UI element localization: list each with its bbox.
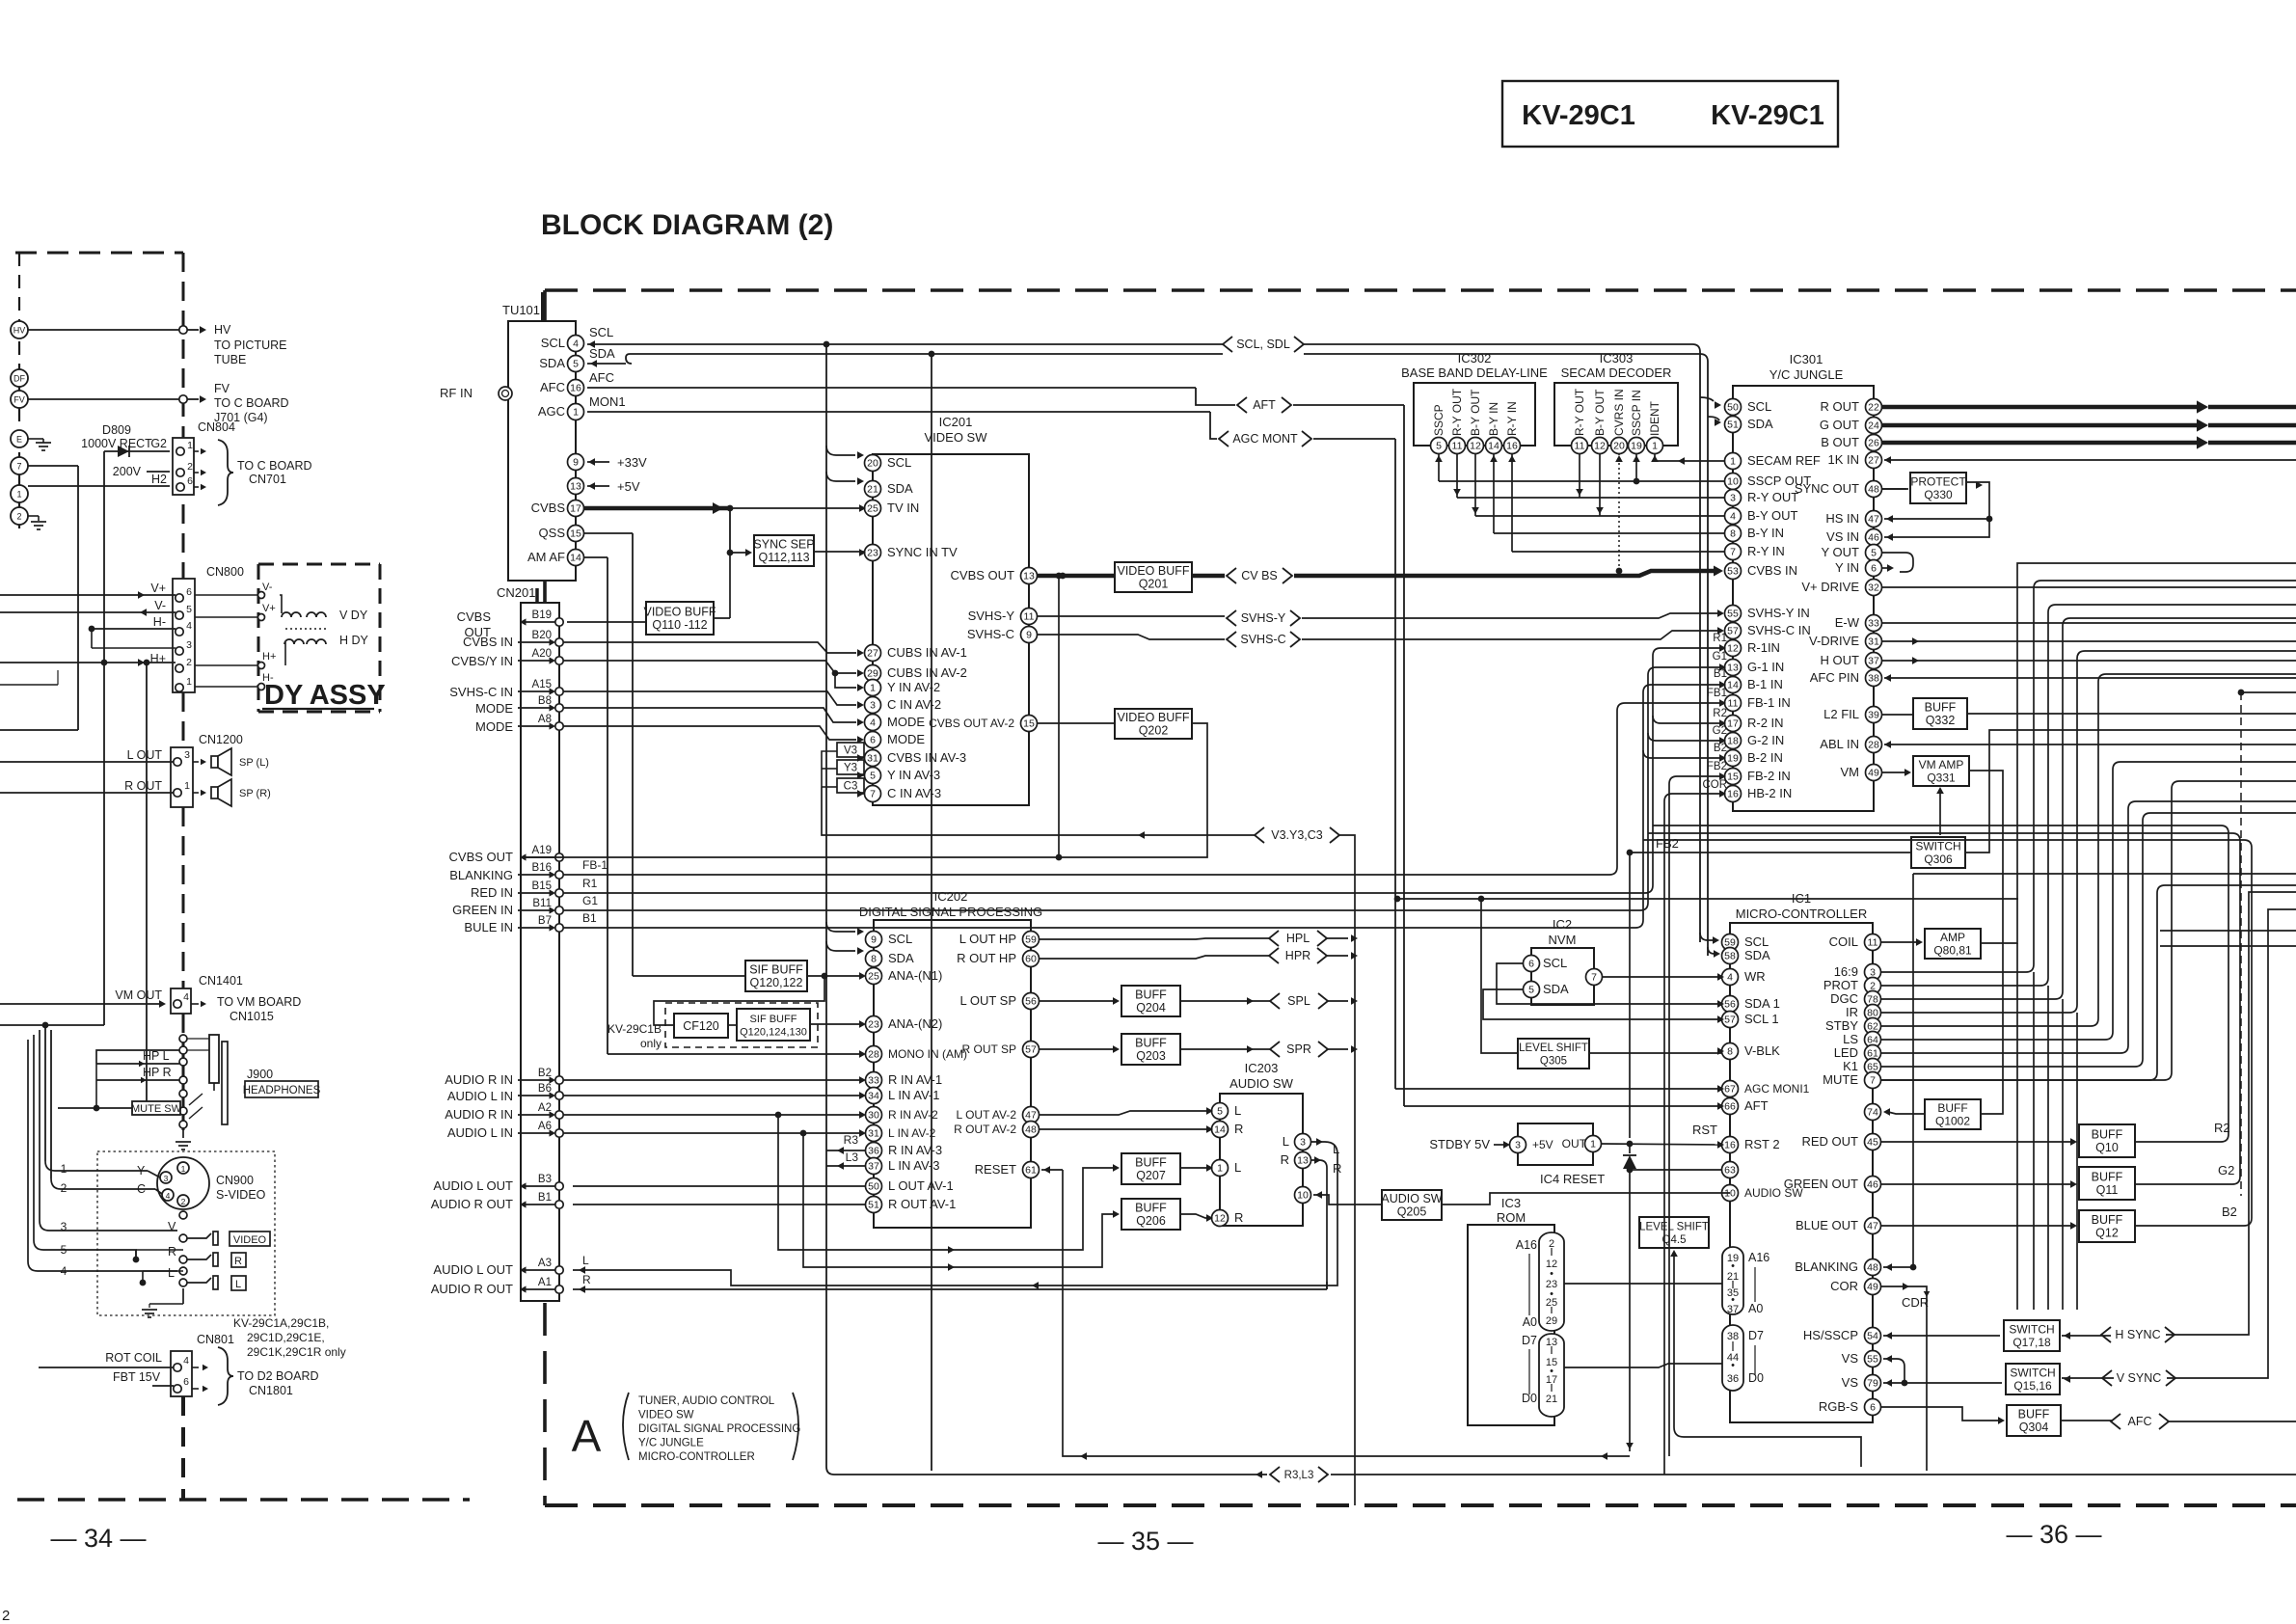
svg-text:H+: H+	[150, 652, 166, 665]
svg-text:V DY: V DY	[339, 609, 368, 622]
svg-text:55: 55	[1867, 1354, 1878, 1366]
svg-text:Y/C JUNGLE: Y/C JUNGLE	[1769, 367, 1844, 382]
svg-text:3: 3	[1515, 1140, 1521, 1151]
svg-text:BULE IN: BULE IN	[464, 920, 513, 934]
svg-text:GREEN OUT: GREEN OUT	[1784, 1177, 1858, 1191]
svg-text:CVBS OUT AV-2: CVBS OUT AV-2	[929, 717, 1014, 730]
svg-text:11: 11	[1575, 441, 1585, 452]
svg-text:4: 4	[183, 991, 189, 1003]
svg-text:57: 57	[1727, 626, 1739, 637]
svg-text:16: 16	[1506, 441, 1518, 452]
svg-text:48: 48	[1867, 1262, 1878, 1274]
svg-text:SDA: SDA	[1747, 417, 1773, 431]
svg-text:Q80,81: Q80,81	[1933, 944, 1972, 958]
svg-text:G-1 IN: G-1 IN	[1747, 660, 1784, 674]
svg-text:R OUT: R OUT	[124, 779, 162, 793]
svg-text:1: 1	[16, 490, 21, 500]
svg-text:AFC PIN: AFC PIN	[1810, 670, 1859, 685]
svg-text:3: 3	[186, 639, 192, 651]
svg-text:2: 2	[187, 461, 193, 473]
svg-text:SDA: SDA	[1543, 982, 1569, 996]
svg-text:BUFF: BUFF	[1135, 988, 1167, 1002]
svg-text:AGC: AGC	[538, 404, 565, 419]
svg-text:Q110 -112: Q110 -112	[652, 618, 707, 632]
svg-text:AUDIO R OUT: AUDIO R OUT	[431, 1197, 513, 1211]
svg-text:TV IN: TV IN	[887, 501, 919, 515]
svg-text:SVHS-Y: SVHS-Y	[968, 609, 1015, 623]
svg-text:G1: G1	[582, 894, 598, 907]
svg-text:29: 29	[867, 668, 878, 680]
svg-text:AFT: AFT	[1744, 1098, 1769, 1113]
svg-text:28: 28	[868, 1049, 879, 1061]
svg-text:VIDEO BUFF: VIDEO BUFF	[1117, 564, 1189, 578]
svg-text:CVBS/Y IN: CVBS/Y IN	[451, 654, 513, 668]
svg-text:COIL: COIL	[1829, 934, 1858, 949]
svg-text:SCL: SCL	[887, 455, 911, 470]
svg-text:MUTE: MUTE	[1823, 1072, 1858, 1087]
svg-text:S-VIDEO: S-VIDEO	[216, 1188, 266, 1202]
svg-text:BLUE OUT: BLUE OUT	[1796, 1218, 1858, 1232]
svg-text:7: 7	[16, 462, 21, 472]
svg-text:45: 45	[1867, 1137, 1878, 1149]
svg-text:1: 1	[186, 676, 192, 688]
svg-text:BUFF: BUFF	[1925, 701, 1957, 715]
svg-text:13: 13	[570, 481, 581, 493]
svg-text:BLANKING: BLANKING	[1795, 1259, 1858, 1274]
svg-text:Q206: Q206	[1136, 1214, 1166, 1228]
svg-text:V+ DRIVE: V+ DRIVE	[1801, 580, 1859, 594]
svg-text:PROT: PROT	[1823, 978, 1858, 992]
svg-text:15: 15	[1023, 718, 1035, 730]
svg-text:E-W: E-W	[1835, 615, 1860, 630]
svg-text:TU101: TU101	[502, 303, 540, 317]
svg-text:B1: B1	[582, 911, 597, 925]
svg-text:E: E	[16, 435, 22, 445]
svg-text:V+: V+	[262, 603, 276, 614]
svg-text:200V: 200V	[113, 465, 142, 478]
svg-text:CVBS OUT: CVBS OUT	[951, 568, 1015, 582]
svg-text:14: 14	[1214, 1124, 1226, 1136]
svg-text:33: 33	[1868, 618, 1879, 630]
svg-text:66: 66	[1724, 1101, 1736, 1113]
svg-text:CVBS: CVBS	[457, 609, 492, 624]
svg-text:63: 63	[1724, 1165, 1736, 1177]
svg-text:CV BS: CV BS	[1241, 569, 1278, 582]
svg-text:37: 37	[1868, 656, 1879, 667]
svg-text:36: 36	[1727, 1373, 1739, 1385]
svg-text:L3: L3	[846, 1150, 859, 1164]
svg-text:OUT: OUT	[1562, 1137, 1587, 1150]
svg-text:BASE BAND DELAY-LINE: BASE BAND DELAY-LINE	[1401, 365, 1548, 380]
svg-text:HV: HV	[14, 326, 26, 336]
svg-text:AFT: AFT	[1253, 398, 1276, 412]
svg-text:V: V	[168, 1220, 176, 1233]
svg-text:37: 37	[868, 1161, 879, 1173]
svg-text:L: L	[1283, 1134, 1289, 1149]
svg-text:Y3: Y3	[844, 763, 857, 774]
svg-text:C IN AV-2: C IN AV-2	[887, 697, 941, 712]
svg-text:3: 3	[1730, 493, 1736, 504]
svg-text:TUBE: TUBE	[214, 353, 246, 366]
svg-text:DF: DF	[14, 374, 25, 384]
svg-text:VIDEO SW: VIDEO SW	[638, 1410, 694, 1421]
svg-text:SDA: SDA	[1744, 948, 1770, 962]
svg-text:Q202: Q202	[1139, 724, 1169, 738]
svg-text:21: 21	[1546, 1394, 1557, 1405]
svg-text:9: 9	[871, 934, 877, 946]
svg-text:L OUT AV-1: L OUT AV-1	[888, 1178, 954, 1193]
svg-text:•: •	[1731, 1360, 1735, 1371]
svg-text:ANA-(N2): ANA-(N2)	[888, 1016, 942, 1031]
svg-text:39: 39	[1868, 710, 1879, 721]
svg-text:7: 7	[1730, 547, 1736, 558]
svg-text:67: 67	[1724, 1084, 1736, 1096]
svg-text:R3: R3	[844, 1133, 859, 1147]
svg-text:J900: J900	[247, 1068, 273, 1081]
svg-text:16: 16	[570, 383, 581, 394]
svg-text:74: 74	[1867, 1107, 1878, 1119]
svg-text:CN900: CN900	[216, 1174, 254, 1187]
svg-text:R1: R1	[582, 877, 598, 890]
svg-text:Y OUT: Y OUT	[1822, 545, 1860, 559]
svg-text:VS IN: VS IN	[1826, 529, 1859, 544]
svg-text:A16: A16	[1748, 1251, 1769, 1264]
svg-text:10: 10	[1727, 476, 1739, 488]
svg-text:46: 46	[1867, 1179, 1878, 1191]
svg-text:R: R	[582, 1273, 591, 1286]
svg-text:AUDIO L IN: AUDIO L IN	[447, 1125, 513, 1140]
svg-text:COR: COR	[1702, 779, 1727, 791]
svg-text:SP (L): SP (L)	[239, 757, 269, 769]
svg-text:MODE: MODE	[887, 715, 925, 729]
svg-text:7: 7	[1870, 1075, 1876, 1087]
svg-text:CVRS IN: CVRS IN	[1612, 389, 1626, 436]
svg-text:SDA: SDA	[887, 481, 913, 496]
svg-text:SVHS-Y: SVHS-Y	[1241, 611, 1286, 625]
svg-text:KV-29C1: KV-29C1	[1522, 100, 1635, 131]
svg-text:Q12: Q12	[2095, 1227, 2119, 1240]
svg-text:8: 8	[1727, 1046, 1733, 1058]
svg-text:SYNC OUT: SYNC OUT	[1795, 481, 1859, 496]
svg-text:BLOCK DIAGRAM (2): BLOCK DIAGRAM (2)	[541, 209, 833, 241]
svg-text:79: 79	[1867, 1378, 1878, 1390]
svg-text:61: 61	[1025, 1165, 1037, 1177]
svg-text:2: 2	[61, 1181, 68, 1195]
svg-text:CN804: CN804	[198, 420, 235, 434]
svg-text:Q331: Q331	[1927, 771, 1956, 785]
svg-text:V-DRIVE: V-DRIVE	[1809, 634, 1859, 648]
svg-text:7: 7	[870, 789, 876, 800]
svg-text:R: R	[1234, 1122, 1243, 1136]
svg-text:R: R	[168, 1245, 176, 1259]
svg-text:CVBS: CVBS	[531, 501, 566, 515]
svg-text:RF IN: RF IN	[440, 386, 473, 400]
svg-text:A1: A1	[538, 1277, 552, 1288]
svg-text:VIDEO SW: VIDEO SW	[924, 430, 987, 445]
svg-text:AUDIO R OUT: AUDIO R OUT	[431, 1282, 513, 1296]
svg-text:L IN AV-2: L IN AV-2	[888, 1126, 936, 1140]
svg-text:B19: B19	[532, 609, 552, 621]
svg-text:6: 6	[183, 1376, 189, 1388]
svg-text:Q15,16: Q15,16	[2013, 1379, 2052, 1393]
svg-text:TO D2 BOARD: TO D2 BOARD	[237, 1369, 319, 1383]
svg-text:B2: B2	[2222, 1204, 2237, 1219]
svg-text:Q332: Q332	[1926, 714, 1956, 727]
svg-text:R-Y IN: R-Y IN	[1747, 544, 1785, 558]
svg-text:R OUT AV-2: R OUT AV-2	[954, 1123, 1016, 1136]
svg-text:SVHS-C IN: SVHS-C IN	[449, 685, 513, 699]
svg-text:HEADPHONES: HEADPHONES	[243, 1085, 321, 1096]
svg-text:DIGITAL SIGNAL PROCESSING: DIGITAL SIGNAL PROCESSING	[638, 1423, 800, 1435]
svg-text:Y IN: Y IN	[1835, 560, 1859, 575]
svg-text:MODE: MODE	[475, 701, 513, 716]
svg-text:57: 57	[1025, 1044, 1037, 1056]
svg-text:TO VM BOARD: TO VM BOARD	[217, 995, 301, 1009]
svg-text:4: 4	[1727, 972, 1733, 984]
svg-text:R-Y IN: R-Y IN	[1505, 401, 1519, 436]
svg-text:V+: V+	[150, 582, 166, 595]
svg-text:MODE: MODE	[887, 732, 925, 746]
svg-text:R-Y OUT: R-Y OUT	[1450, 388, 1464, 436]
svg-text:A16: A16	[1516, 1238, 1537, 1252]
svg-text:1: 1	[1730, 456, 1736, 468]
svg-text:1K IN: 1K IN	[1827, 452, 1859, 467]
svg-text:RED OUT: RED OUT	[1802, 1134, 1859, 1149]
svg-text:MICRO-CONTROLLER: MICRO-CONTROLLER	[1736, 907, 1868, 921]
svg-text:ANA-(N1): ANA-(N1)	[888, 968, 942, 983]
svg-text:MODE: MODE	[475, 719, 513, 734]
svg-text:R OUT: R OUT	[1821, 399, 1860, 414]
svg-text:20: 20	[1613, 441, 1625, 452]
svg-text:26: 26	[1868, 438, 1879, 449]
svg-text:FB2: FB2	[1656, 836, 1679, 851]
svg-text:LEVEL SHIFT: LEVEL SHIFT	[1639, 1222, 1709, 1233]
svg-text:LED: LED	[1834, 1045, 1858, 1060]
svg-text:47: 47	[1868, 514, 1879, 526]
svg-text:50: 50	[868, 1181, 879, 1193]
svg-text:D7: D7	[1748, 1329, 1764, 1342]
svg-text:31: 31	[868, 1128, 879, 1140]
svg-text:+33V: +33V	[617, 455, 647, 470]
svg-text:R: R	[1234, 1210, 1243, 1225]
svg-text:A: A	[572, 1411, 602, 1461]
svg-text:1: 1	[1217, 1163, 1223, 1175]
svg-text:R1: R1	[1713, 633, 1727, 644]
svg-text:38: 38	[1868, 673, 1879, 685]
svg-text:GREEN IN: GREEN IN	[452, 903, 513, 917]
svg-text:47: 47	[1025, 1110, 1037, 1122]
svg-text:HPL: HPL	[1286, 932, 1310, 945]
svg-text:56: 56	[1724, 999, 1736, 1011]
svg-text:V-BLK: V-BLK	[1744, 1043, 1780, 1058]
svg-text:+5V: +5V	[1532, 1138, 1553, 1151]
svg-text:B16: B16	[532, 862, 552, 874]
svg-text:IC301: IC301	[1790, 352, 1823, 366]
svg-text:A19: A19	[532, 845, 552, 856]
svg-text:SPR: SPR	[1286, 1042, 1311, 1056]
svg-text:SECAM DECODER: SECAM DECODER	[1561, 365, 1672, 380]
svg-text:B20: B20	[532, 630, 552, 641]
svg-text:29C1D,29C1E,: 29C1D,29C1E,	[247, 1331, 325, 1344]
svg-text:34: 34	[868, 1091, 879, 1102]
svg-text:SDA: SDA	[539, 356, 565, 370]
svg-text:SSCP: SSCP	[1432, 404, 1445, 436]
svg-text:6: 6	[1528, 959, 1534, 970]
svg-text:H-: H-	[153, 615, 166, 629]
svg-text:G1: G1	[1713, 651, 1727, 663]
svg-text:14: 14	[1488, 441, 1499, 452]
svg-text:MON1: MON1	[589, 394, 626, 409]
svg-text:47: 47	[1867, 1221, 1878, 1232]
svg-text:HP L: HP L	[143, 1049, 170, 1063]
svg-text:IC3: IC3	[1501, 1196, 1521, 1210]
svg-text:FB2: FB2	[1707, 761, 1727, 772]
svg-text:6: 6	[1871, 563, 1877, 575]
svg-text:R-Y OUT: R-Y OUT	[1747, 490, 1798, 504]
svg-text:22: 22	[1868, 402, 1879, 414]
svg-text:6: 6	[1870, 1402, 1876, 1414]
svg-text:Q17,18: Q17,18	[2012, 1336, 2051, 1349]
svg-text:VM AMP: VM AMP	[1919, 758, 1964, 771]
svg-text:IDENT: IDENT	[1648, 400, 1661, 436]
svg-text:7: 7	[1591, 972, 1597, 984]
svg-text:R OUT AV-1: R OUT AV-1	[888, 1197, 956, 1211]
svg-text:SCL: SCL	[1744, 934, 1769, 949]
svg-text:HV: HV	[214, 323, 231, 337]
svg-text:V3: V3	[844, 745, 857, 757]
svg-text:11: 11	[1024, 611, 1035, 623]
svg-text:Y/C JUNGLE: Y/C JUNGLE	[638, 1438, 704, 1449]
svg-text:2: 2	[16, 512, 21, 522]
svg-text:HPR: HPR	[1285, 949, 1310, 962]
svg-text:AUDIO R IN: AUDIO R IN	[445, 1107, 513, 1122]
svg-text:FB-2 IN: FB-2 IN	[1747, 769, 1791, 783]
svg-text:38: 38	[1727, 1331, 1739, 1342]
svg-text:H SYNC: H SYNC	[2115, 1328, 2160, 1341]
svg-text:— 35 —: — 35 —	[1097, 1527, 1193, 1556]
svg-text:FV: FV	[214, 382, 230, 395]
svg-text:36: 36	[868, 1146, 879, 1157]
svg-text:1: 1	[184, 780, 190, 792]
svg-text:IC203: IC203	[1245, 1061, 1279, 1075]
svg-text:B-Y OUT: B-Y OUT	[1593, 389, 1607, 436]
svg-text:BLANKING: BLANKING	[449, 868, 513, 882]
svg-text:B OUT: B OUT	[1821, 435, 1859, 449]
svg-text:23: 23	[868, 1019, 879, 1031]
svg-text:SIF BUFF: SIF BUFF	[750, 1014, 797, 1025]
svg-text:5: 5	[1217, 1106, 1223, 1118]
svg-text:RESET: RESET	[975, 1162, 1016, 1177]
svg-text:33: 33	[868, 1075, 879, 1087]
svg-text:Q330: Q330	[1924, 488, 1953, 501]
svg-text:60: 60	[1025, 954, 1037, 965]
svg-text:CN1015: CN1015	[230, 1010, 274, 1023]
svg-text:SWITCH: SWITCH	[2009, 1323, 2054, 1337]
svg-text:BUFF: BUFF	[1135, 1202, 1167, 1215]
svg-text:VS: VS	[1842, 1375, 1859, 1390]
svg-text:12: 12	[1214, 1213, 1226, 1225]
svg-text:A3: A3	[538, 1258, 552, 1269]
svg-text:VIDEO: VIDEO	[233, 1234, 267, 1246]
svg-text:RED IN: RED IN	[471, 885, 513, 900]
svg-text:B-2 IN: B-2 IN	[1747, 750, 1783, 765]
svg-text:29: 29	[1546, 1315, 1557, 1327]
svg-text:WR: WR	[1744, 969, 1766, 984]
svg-text:12: 12	[1594, 441, 1606, 452]
svg-text:6: 6	[186, 586, 192, 598]
svg-text:R2: R2	[2214, 1121, 2230, 1135]
svg-text:AUDIO L IN: AUDIO L IN	[447, 1089, 513, 1103]
svg-text:PROTECT: PROTECT	[1910, 475, 1966, 489]
svg-text:SVHS-C: SVHS-C	[1240, 633, 1285, 646]
svg-text:46: 46	[1868, 532, 1879, 544]
svg-text:ABL IN: ABL IN	[1820, 737, 1859, 751]
svg-text:B2: B2	[1714, 743, 1727, 754]
svg-text:5: 5	[573, 359, 579, 370]
svg-text:TUNER, AUDIO CONTROL: TUNER, AUDIO CONTROL	[638, 1395, 775, 1407]
svg-text:Q203: Q203	[1136, 1049, 1166, 1063]
svg-text:2: 2	[186, 657, 192, 668]
svg-text:H OUT: H OUT	[1821, 653, 1860, 667]
svg-text:SVHS-C: SVHS-C	[967, 627, 1014, 641]
svg-text:L: L	[1234, 1103, 1241, 1118]
svg-text:FV: FV	[14, 395, 25, 405]
svg-text:G-2 IN: G-2 IN	[1747, 733, 1784, 747]
svg-text:5: 5	[1436, 441, 1442, 452]
svg-text:MONO IN (AM): MONO IN (AM)	[888, 1047, 967, 1061]
svg-text:21: 21	[867, 484, 878, 496]
svg-text:48: 48	[1025, 1124, 1037, 1136]
svg-text:CVBS OUT: CVBS OUT	[449, 850, 514, 864]
svg-text:IC202: IC202	[934, 889, 968, 904]
svg-text:4: 4	[573, 338, 579, 350]
svg-text:Q204: Q204	[1136, 1001, 1166, 1015]
svg-text:HS IN: HS IN	[1825, 511, 1859, 526]
svg-text:VIDEO BUFF: VIDEO BUFF	[643, 606, 716, 619]
svg-text:R OUT SP: R OUT SP	[962, 1042, 1016, 1056]
svg-text:Q11: Q11	[2096, 1183, 2119, 1197]
svg-text:BUFF: BUFF	[2092, 1128, 2123, 1142]
svg-text:COR: COR	[1830, 1279, 1858, 1293]
svg-text:12: 12	[1470, 441, 1481, 452]
svg-text:57: 57	[1724, 1015, 1736, 1026]
svg-text:1: 1	[181, 1164, 186, 1174]
svg-text:6: 6	[187, 475, 193, 487]
svg-text:L OUT SP: L OUT SP	[959, 993, 1016, 1008]
svg-text:SYNC SEP: SYNC SEP	[753, 538, 814, 552]
svg-text:20: 20	[867, 458, 878, 470]
svg-text:B-1 IN: B-1 IN	[1747, 677, 1783, 691]
svg-text:CN1801: CN1801	[249, 1384, 293, 1397]
svg-text:LS: LS	[1843, 1032, 1858, 1046]
svg-text:L OUT HP: L OUT HP	[959, 932, 1016, 946]
svg-text:SCL: SCL	[1543, 956, 1567, 970]
svg-text:BUFF: BUFF	[2018, 1408, 2050, 1421]
svg-text:28: 28	[1868, 740, 1879, 751]
svg-text:3: 3	[870, 700, 876, 712]
svg-text:FB-1: FB-1	[582, 858, 608, 872]
svg-text:CN1401: CN1401	[199, 974, 243, 988]
svg-text:SWITCH: SWITCH	[2010, 1367, 2055, 1380]
svg-text:VS: VS	[1842, 1351, 1859, 1366]
svg-text:H DY: H DY	[339, 634, 369, 647]
svg-text:CN801: CN801	[197, 1333, 234, 1346]
svg-text:G2: G2	[2218, 1163, 2234, 1177]
svg-text:55: 55	[1727, 609, 1739, 620]
svg-text:LEVEL SHIFT: LEVEL SHIFT	[1519, 1042, 1588, 1054]
svg-text:30: 30	[868, 1110, 879, 1122]
svg-text:HB-2 IN: HB-2 IN	[1747, 786, 1792, 800]
